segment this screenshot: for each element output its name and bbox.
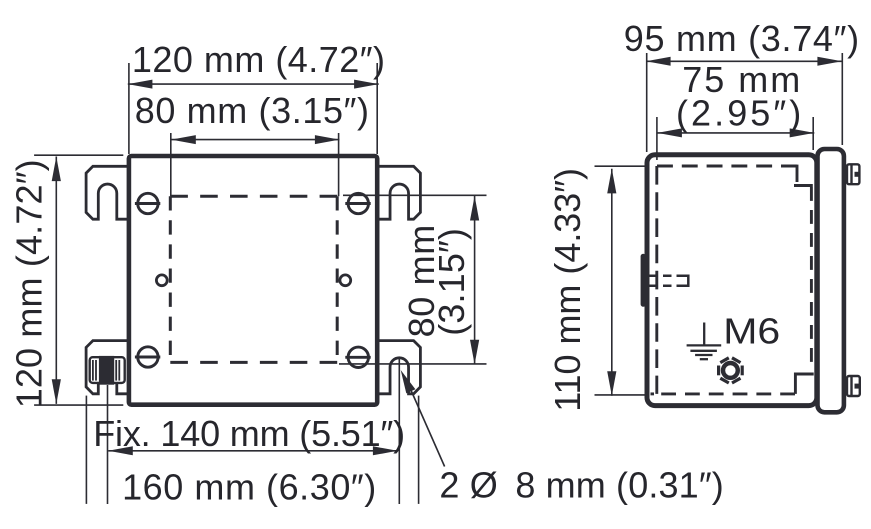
enclosure body front: [129, 156, 377, 405]
svg-text:(3.15″): (3.15″): [431, 228, 472, 336]
enclosure body side: [647, 155, 817, 406]
extension line 80mm-top left: [170, 133, 172, 196]
dashed inner: top horizontal: [657, 165, 797, 168]
small hole right: [340, 275, 351, 286]
mounting tab top-left: [86, 166, 129, 219]
dim 120mm top: extension lines: [128, 63, 130, 154]
dim 95mm: line and arrows: [646, 60, 842, 62]
dashed inner: left vertical: [655, 166, 658, 394]
earth ground symbol: [687, 323, 722, 360]
small hole left: [156, 275, 167, 286]
dim 120mm top: line and arrows: [128, 83, 379, 85]
svg-text:110 mm (4.33″): 110 mm (4.33″): [547, 168, 588, 412]
dim 110mm: extension lines: [595, 165, 645, 167]
hinge bar on left edge: [641, 256, 646, 304]
dim 120mm left: line and arrows: [55, 157, 57, 404]
leader line for hole callout: [410, 388, 445, 467]
notch bottom-right solid: [795, 374, 813, 394]
svg-text:120 mm (4.72″): 120 mm (4.72″): [132, 39, 385, 80]
svg-text:Fix. 140 mm (5.51″): Fix. 140 mm (5.51″): [93, 413, 405, 454]
dashed inner: right vertical: [810, 187, 813, 365]
dashed inner: bottom horizontal: [657, 392, 795, 395]
svg-text:2 Ø 8 mm (0.31″): 2 Ø 8 mm (0.31″): [439, 464, 723, 505]
mounting tab bottom-left: [86, 341, 129, 394]
screw top-right: [345, 193, 370, 213]
svg-text:M6: M6: [723, 312, 780, 352]
mounting tab top-right: [377, 166, 420, 219]
svg-text:(2.95″): (2.95″): [676, 93, 801, 134]
notch top-right solid: [796, 165, 799, 182]
lid: [818, 149, 844, 412]
dim 120mm left: extension lines: [34, 154, 123, 156]
dashed mounting square 80x80: [170, 196, 337, 362]
screw bottom-right: [345, 347, 370, 367]
svg-text:160 mm (6.30″): 160 mm (6.30″): [122, 467, 376, 508]
svg-text:80 mm (3.15″): 80 mm (3.15″): [135, 90, 369, 131]
fixing screw block in bottom-left tab: [90, 356, 125, 385]
screw top-left: [135, 193, 160, 213]
svg-text:95 mm (3.74″): 95 mm (3.74″): [624, 18, 859, 59]
dim 110mm: line and arrows: [611, 169, 613, 396]
svg-text:120 mm (4.72″): 120 mm (4.72″): [8, 159, 49, 408]
screw bottom-left: [135, 347, 160, 367]
dim Fix140: extension lines: [107, 385, 109, 504]
M6 nut icon: [719, 358, 743, 383]
dim Fix140: line and arrows: [108, 450, 397, 452]
mounting tab bottom-right: [377, 341, 420, 394]
dim 80mm right: line and arrows: [474, 196, 476, 365]
dim 75mm: line and arrows: [657, 132, 814, 134]
dim 75mm: extension lines: [656, 117, 658, 160]
dim 80mm right: extension lines: [343, 194, 487, 196]
clip top: [847, 164, 859, 184]
dim 95mm: extension lines: [646, 53, 648, 152]
clip bottom: [847, 376, 860, 396]
cable gland dashed: [650, 276, 687, 286]
dim 80mm top: line and arrows: [171, 139, 339, 141]
extension line 80mm-top right: [338, 133, 340, 196]
dim 160: extension lines: [85, 396, 87, 504]
